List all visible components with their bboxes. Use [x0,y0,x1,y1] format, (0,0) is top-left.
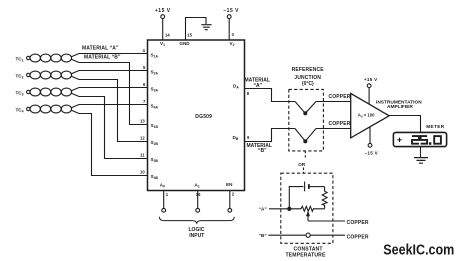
wire TC1 material A to pin 4 [79,53,148,55]
wire A1 logic input [197,191,199,209]
svg-text:= 100: = 100 [364,113,375,118]
svg-text:S4B: S4B [151,174,159,180]
svg-text:TC3: TC3 [16,91,24,97]
dashed link OR [298,151,306,173]
svg-text:S4A: S4A [151,104,159,110]
svg-text:MATERIAL “B”: MATERIAL “B” [84,55,121,61]
wire +15V to pin 14 [162,19,164,41]
svg-text:S3A: S3A [151,87,159,93]
svg-text:AMPLIFIER: AMPLIFIER [387,104,413,110]
IC U1 DG509 body [148,40,245,191]
thermocouple TC4 [16,105,80,114]
svg-text:5: 5 [143,65,146,70]
svg-text:–15 V: –15 V [223,8,239,14]
svg-text:V1: V1 [160,41,165,47]
svg-text:COPPER: COPPER [329,94,351,100]
brace logic input [159,217,234,224]
svg-text:COPPER: COPPER [329,121,351,127]
wire meter to ground [420,147,422,158]
wire TC3 material B to pin 11 [79,97,148,159]
svg-text:JUNCTION: JUNCTION [294,75,321,81]
+15V supply terminal V1 [155,8,171,19]
label MATERIAL A (right) [245,77,270,89]
wire +15V to amplifier [368,88,370,105]
op-amp U2 instrumentation amplifier [351,93,389,137]
ground symbol (GND pin) [201,25,211,30]
wire TC3 material A to pin 6 [79,87,148,89]
wire DB pin 9 to reference junction [245,129,296,142]
wire amplifier to -15V [369,127,371,144]
svg-text:13: 13 [140,119,145,124]
svg-text:8: 8 [247,91,250,96]
svg-text:GND: GND [179,41,190,46]
svg-text:OR: OR [298,162,306,167]
wire TC4 material A to pin 7 [79,104,148,106]
thermocouple TC3 [16,88,80,97]
svg-text:14: 14 [165,33,170,38]
wire junction A to amplifier [316,101,351,103]
wire amplifier output to meter [389,116,420,133]
svg-text:METER: METER [426,124,444,129]
wire DA pin 8 to reference junction [245,89,296,102]
wire TC1 material B to pin 13 [79,63,148,125]
node junction dot A [288,207,291,210]
svg-text:+15 V: +15 V [155,8,171,14]
svg-text:DA: DA [233,84,239,90]
svg-text:A1: A1 [195,183,200,189]
thermocouple TC2 [16,71,80,80]
svg-text:6: 6 [143,82,146,87]
svg-text:12: 12 [140,136,145,141]
-15V supply terminal V2 [223,8,239,19]
svg-text:EN: EN [226,182,233,187]
wire EN logic input [229,191,231,209]
svg-text:S1B: S1B [151,123,159,129]
label CONSTANT TEMPERATURE [286,247,326,259]
svg-text:TEMPERATURE: TEMPERATURE [286,252,326,258]
svg-text:A0: A0 [160,183,165,189]
svg-text:DG509: DG509 [195,114,212,120]
svg-text:3: 3 [232,32,235,37]
terminal circle on wire B [306,233,310,237]
svg-text:“A”: “A” [254,83,263,89]
svg-text:9: 9 [247,135,250,140]
svg-text:V2: V2 [230,41,235,47]
svg-text:“B”: “B” [258,148,267,154]
meter plus sign [397,138,401,142]
label REFERENCE JUNCTION (0 C) [292,67,325,87]
svg-text:MATERIAL “A”: MATERIAL “A” [82,46,119,52]
meter M1 display [393,132,446,146]
svg-text:1: 1 [166,192,169,197]
svg-text:“A”: “A” [259,207,268,213]
label INSTRUMENTATION AMPLIFIER [376,99,422,110]
svg-text:TC4: TC4 [16,108,24,114]
svg-text:+15 V: +15 V [364,77,378,82]
svg-text:7: 7 [143,99,146,104]
wire TC2 material A to pin 5 [79,70,148,72]
wire junction B to amplifier [316,128,351,130]
svg-text:–15 V: –15 V [365,150,379,155]
svg-text:(0°C): (0°C) [302,81,314,87]
svg-text:TC2: TC2 [16,74,24,80]
svg-text:“B”: “B” [259,233,268,239]
ground symbol (meter) [414,158,428,164]
svg-text:DB: DB [233,135,239,141]
meter decimal point [429,142,432,145]
wire A into constant temperature box [269,208,301,210]
thermocouple junction B (in reference box) [295,129,316,143]
thermocouple junction A (in reference box) [295,102,316,115]
battery B1 [289,182,324,209]
svg-text:10: 10 [140,170,145,175]
terminal EN [228,208,232,212]
wire -15V to pin 3 [228,19,230,41]
meter digit 5 [421,136,428,144]
label MATERIAL B (right) [247,143,272,154]
+15V supply terminal (amplifier) [364,77,378,88]
svg-text:2: 2 [232,192,235,197]
svg-text:S2A: S2A [151,70,159,76]
svg-text:COPPER: COPPER [347,220,369,226]
-15V supply terminal (amplifier) [365,143,379,155]
svg-text:S3B: S3B [151,157,159,163]
meter digit 2 [412,136,419,144]
wire TC2 material B to pin 12 [79,80,148,142]
svg-text:REFERENCE: REFERENCE [292,67,325,73]
wire B through constant temperature box [268,234,345,236]
thermocouple TC1 [16,54,80,63]
label AV = 100 [358,113,375,119]
svg-text:4: 4 [143,48,146,53]
wire GND pin 15 to ground [186,18,207,41]
svg-text:15: 15 [187,33,192,38]
reference junction box [289,89,324,150]
svg-text:S2B: S2B [151,140,159,146]
svg-text:INPUT: INPUT [189,233,204,239]
wire A0 logic input [163,191,165,209]
label LOGIC INPUT [189,227,205,239]
svg-text:16: 16 [196,192,201,197]
meter digit 0 [434,136,441,144]
potentiometer R2 [301,206,325,221]
svg-text:S1A: S1A [151,53,159,59]
svg-text:11: 11 [140,153,145,158]
svg-text:COPPER: COPPER [347,235,369,241]
svg-text:TC1: TC1 [16,57,24,63]
terminal A0 [162,208,166,212]
terminal A1 [196,208,200,212]
resistor R1 [322,187,327,209]
svg-text:SeekIC.com: SeekIC.com [383,242,454,259]
constant temperature box [281,173,333,243]
wire potentiometer wiper to copper [308,220,345,222]
wire TC4 material B to pin 10 [79,114,148,176]
